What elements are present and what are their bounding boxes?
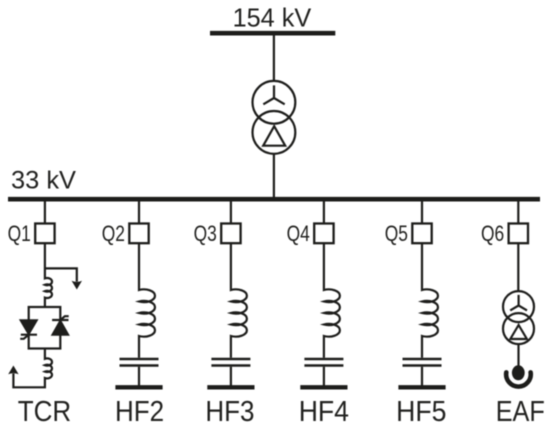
svg-text:HF2: HF2 <box>115 396 164 428</box>
svg-text:HF4: HF4 <box>299 396 349 428</box>
svg-text:TCR: TCR <box>18 396 71 428</box>
svg-text:Q5: Q5 <box>385 221 408 246</box>
svg-text:154 kV: 154 kV <box>233 2 312 32</box>
svg-text:HF5: HF5 <box>396 396 446 428</box>
svg-text:Q2: Q2 <box>102 221 125 246</box>
svg-text:Q6: Q6 <box>481 221 504 246</box>
svg-text:Q4: Q4 <box>287 221 310 246</box>
svg-text:HF3: HF3 <box>205 396 254 428</box>
svg-text:Q1: Q1 <box>8 221 31 246</box>
svg-text:Q3: Q3 <box>194 221 217 246</box>
svg-text:EAF: EAF <box>496 396 545 428</box>
svg-text:33 kV: 33 kV <box>11 167 76 195</box>
